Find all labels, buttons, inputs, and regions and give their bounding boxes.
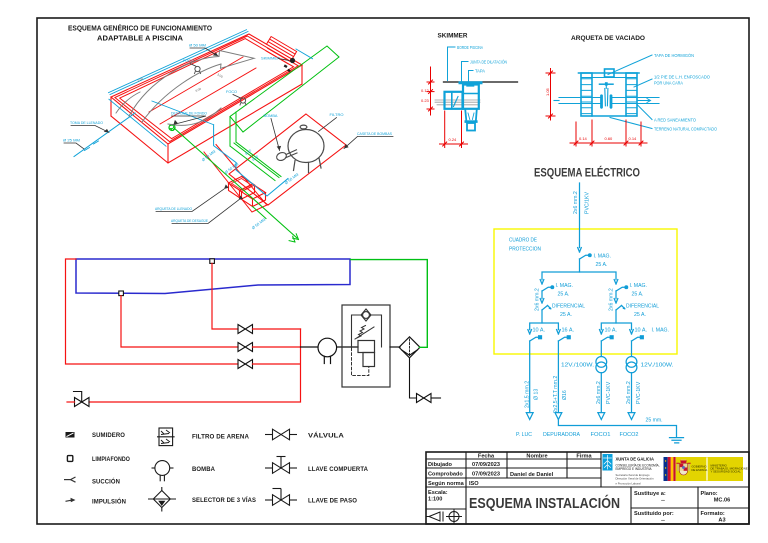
pool floor lines <box>149 57 256 124</box>
breaker Q0 I.MAG 25A <box>578 248 591 272</box>
svg-text:10 A.: 10 A. <box>605 328 618 334</box>
svg-text:JUNTA DE DILATACIÓN: JUNTA DE DILATACIÓN <box>470 60 507 65</box>
svg-text:07/09/2023: 07/09/2023 <box>472 462 500 468</box>
pool wall verticals <box>111 65 302 163</box>
earthing conductor run <box>558 420 676 437</box>
flow small arc left <box>116 92 140 113</box>
transformer T2 12V 100W <box>626 357 637 413</box>
svg-text:LLAVE DE PASO: LLAVE DE PASO <box>308 498 357 505</box>
red stub left of drain valve <box>67 401 75 403</box>
breaker Q6 10A I.MAG <box>630 330 644 357</box>
sumidero symbol <box>66 432 75 438</box>
foco lamp 2 <box>240 98 246 105</box>
svg-text:ARQUETA DE DESAGÜE: ARQUETA DE DESAGÜE <box>171 219 208 223</box>
svg-text:ARQUETA DE LLENADO: ARQUETA DE LLENADO <box>155 207 192 211</box>
cyan rim trim <box>109 30 249 95</box>
terminal arrow P.LUC <box>526 413 533 420</box>
svg-text:--: -- <box>661 518 665 524</box>
svg-text:I. MAG.: I. MAG. <box>630 283 648 289</box>
skimmer tap square on pool top <box>210 259 215 264</box>
cyan SW trim <box>109 49 313 146</box>
pool basin cross-section <box>76 259 350 294</box>
svg-text:EMPREGO E INDUSTRIA: EMPREGO E INDUSTRIA <box>616 467 653 471</box>
terminal arrow DEPURADORA <box>555 413 562 420</box>
svg-text:25 A.: 25 A. <box>632 292 644 298</box>
svg-text:1:100: 1:100 <box>428 497 442 503</box>
svg-text:12V./100W.: 12V./100W. <box>561 363 594 369</box>
svg-text:2x1,5 mm.2: 2x1,5 mm.2 <box>524 381 530 408</box>
succion symbol <box>64 477 76 482</box>
svg-text:FILTRO DE ARENA: FILTRO DE ARENA <box>192 434 249 441</box>
svg-text:IMPULSIÓN: IMPULSIÓN <box>92 497 126 506</box>
svg-text:ESQUEMA ELÉCTRICO: ESQUEMA ELÉCTRICO <box>534 165 640 180</box>
svg-text:FOCO1: FOCO1 <box>591 432 611 438</box>
svg-text:Ø 50 MM: Ø 50 MM <box>189 44 206 48</box>
black leader lines <box>64 48 393 224</box>
leader caseta <box>344 137 393 149</box>
label BORDE PISCINA <box>448 45 484 81</box>
leader arrowheads <box>104 52 349 200</box>
small dim marks <box>137 72 224 93</box>
bus bar <box>542 272 616 280</box>
filtro de arena symbol <box>157 428 175 446</box>
llave compuerta symbol <box>265 457 297 474</box>
foco lamp 1 <box>195 66 201 73</box>
svg-text:25 A.: 25 A. <box>596 262 608 268</box>
flow arrow tail upper <box>129 57 219 117</box>
svg-text:0.14: 0.14 <box>579 136 588 141</box>
svg-text:BOMBA: BOMBA <box>264 114 278 118</box>
svg-text:FILTRO: FILTRO <box>330 113 344 117</box>
green riser 1 <box>229 117 231 147</box>
green pipe bundle <box>230 142 281 181</box>
svg-text:Formato:: Formato: <box>701 511 725 517</box>
leader arqueta desague <box>172 200 239 224</box>
caseta de bombas slab <box>229 114 346 205</box>
toma de llenado pipe <box>74 113 135 157</box>
flow arrow head <box>219 51 254 69</box>
svg-text:PROTECCION: PROTECCION <box>509 247 541 253</box>
stairs block <box>267 37 297 60</box>
svg-text:I. MAG.: I. MAG. <box>594 254 612 260</box>
skimmer lid bar <box>460 83 481 86</box>
svg-text:--: -- <box>661 498 665 504</box>
leader skimmer <box>279 59 290 61</box>
green boundary parallelogram <box>230 46 339 132</box>
skimmer dims vertical <box>427 67 434 115</box>
breaker Q3 10A <box>528 330 542 413</box>
svg-text:Sustituido por:: Sustituido por: <box>634 511 674 517</box>
svg-text:Comprobado: Comprobado <box>428 472 463 478</box>
svg-text:MC.06: MC.06 <box>714 498 730 504</box>
svg-text:2x6 mm.2: 2x6 mm.2 <box>535 288 541 311</box>
svg-text:POR UNA CARA: POR UNA CARA <box>654 81 683 86</box>
diferencial D1 25A <box>540 299 551 323</box>
title block grid <box>426 452 749 524</box>
llenado feed pipe <box>214 125 288 196</box>
waste line from selector <box>410 358 417 398</box>
svg-text:07/09/2023: 07/09/2023 <box>472 472 500 478</box>
svg-text:Dibujado: Dibujado <box>428 462 453 468</box>
svg-text:Sustituye a:: Sustituye a: <box>634 491 666 497</box>
svg-text:10 A.: 10 A. <box>533 328 546 334</box>
svg-text:DEPURADORA: DEPURADORA <box>543 432 580 438</box>
pump unit <box>276 150 297 162</box>
sump tap square on pool floor <box>119 291 124 296</box>
label JUNTA DE DILATACION <box>462 60 508 84</box>
projection symbol cone <box>427 512 444 521</box>
svg-text:XUNTA DE GALICIA: XUNTA DE GALICIA <box>616 457 655 463</box>
pilot dashed lines <box>352 348 369 376</box>
leader arqueta llenado <box>156 189 224 212</box>
stair step inner 1 <box>268 48 290 61</box>
svg-text:SKIMMER: SKIMMER <box>261 57 280 61</box>
valve V1 <box>238 325 253 334</box>
skimmer unit dark <box>284 58 295 72</box>
svg-text:VÁLVULA: VÁLVULA <box>308 430 344 439</box>
bomba symbol <box>152 461 174 482</box>
filter vent circle <box>361 309 371 321</box>
manifold red lines <box>89 329 301 402</box>
svg-text:FOCO2: FOCO2 <box>620 432 639 438</box>
selector de 3 vias S1 <box>399 337 420 358</box>
svg-text:25 A.: 25 A. <box>560 312 572 318</box>
relief spring <box>355 326 374 340</box>
label A RED SANEAMIENTO <box>637 105 697 123</box>
svg-text:25 A.: 25 A. <box>634 312 646 318</box>
feeder wire <box>579 183 581 248</box>
llave de paso symbol <box>265 489 297 506</box>
arqueta dim vertical <box>546 69 555 121</box>
svg-text:25 A.: 25 A. <box>558 292 570 298</box>
filter valve body <box>358 341 375 353</box>
svg-text:ESQUEMA INSTALACIÓN: ESQUEMA INSTALACIÓN <box>469 494 620 512</box>
skimmer mouth box <box>445 92 463 109</box>
xunta logo blue square <box>603 454 613 471</box>
breaker Q5 10A <box>600 330 614 357</box>
pipe pump to filter unit <box>337 346 358 348</box>
water lines <box>435 100 480 105</box>
green return pipe <box>351 260 428 348</box>
leader foco1 <box>190 64 197 67</box>
red suction pipe 1 (skimmer) <box>212 263 238 329</box>
svg-text:Firma: Firma <box>576 454 592 460</box>
label 1/2 pie <box>634 75 711 88</box>
arqueta link pipe <box>253 207 267 219</box>
drain pipe through arqueta <box>554 98 659 104</box>
right sub-bus <box>601 323 631 330</box>
svg-text:Y SEGURIDAD SOCIAL: Y SEGURIDAD SOCIAL <box>711 469 742 473</box>
transformer T1 12V 100W <box>596 357 607 413</box>
svg-text:2x6 mm.2: 2x6 mm.2 <box>573 191 579 214</box>
svg-text:SUMIDERO: SUMIDERO <box>92 432 125 439</box>
leader bomba <box>271 119 280 151</box>
left brick wall <box>581 73 592 116</box>
valvula symbol <box>265 429 297 440</box>
svg-text:0.24: 0.24 <box>449 137 458 142</box>
funnel <box>465 109 477 120</box>
svg-text:Dirección Xeral de Orientación: Dirección Xeral de Orientación <box>616 476 654 480</box>
projection symbol circle <box>447 509 462 524</box>
svg-text:ISO: ISO <box>469 481 479 487</box>
leader d25 <box>64 143 84 149</box>
flow hook arc <box>168 108 221 125</box>
label TAPA <box>469 69 486 82</box>
svg-text:ESQUEMA GENÉRICO DE FUNCIONAMI: ESQUEMA GENÉRICO DE FUNCIONAMIENTO <box>68 24 213 33</box>
table small texts <box>428 454 730 524</box>
breaker Q1 I.MAG 25A <box>540 280 553 299</box>
svg-text:12V./100W.: 12V./100W. <box>641 363 674 369</box>
breaker Q2 I.MAG 25A <box>614 280 627 299</box>
impulsion symbol <box>66 498 76 503</box>
breaker Q4 16A <box>557 330 571 413</box>
svg-text:ADAPTABLE A PISCINA: ADAPTABLE A PISCINA <box>97 36 183 43</box>
label TERRENO NATURAL <box>610 118 718 132</box>
svg-text:P. LUC: P. LUC <box>516 432 532 438</box>
leader d50 top <box>190 48 218 56</box>
drain arrowhead <box>289 234 298 242</box>
skimmer body chamber <box>463 85 479 131</box>
svg-text:A RED SANEAMIENTO: A RED SANEAMIENTO <box>654 118 697 123</box>
stair step 2 <box>270 39 296 54</box>
svg-text:DESAGÜE DE FONDO: DESAGÜE DE FONDO <box>171 112 207 116</box>
deck line <box>444 81 518 83</box>
cuadro de proteccion yellow box <box>494 229 677 354</box>
svg-text:Según norma: Según norma <box>428 481 465 487</box>
gate valve <box>600 82 614 107</box>
svg-text:Fecha: Fecha <box>478 454 495 460</box>
pool basin edge <box>120 39 294 139</box>
svg-text:SELECTOR DE 3 VÍAS: SELECTOR DE 3 VÍAS <box>192 495 257 504</box>
svg-text:PVC-1KV: PVC-1KV <box>636 381 642 404</box>
terminal arrow FOCO2 <box>628 413 635 420</box>
green riser 2 <box>235 112 237 142</box>
svg-text:ARQUETA DE VACIADO: ARQUETA DE VACIADO <box>571 35 645 42</box>
leader foco2 <box>233 95 241 99</box>
toma pipe ticks <box>85 141 99 151</box>
arqueta de desague box <box>240 184 266 207</box>
flow arrow tail lower <box>142 64 221 122</box>
svg-text:I. MAG.: I. MAG. <box>556 283 574 289</box>
svg-text:TOMA DE LLENADO: TOMA DE LLENADO <box>70 121 103 125</box>
svg-text:SUCCIÓN: SUCCIÓN <box>92 476 120 485</box>
right brick wall <box>626 73 637 116</box>
svg-text:25 mm.: 25 mm. <box>646 418 663 424</box>
left sub-bus <box>530 323 559 330</box>
xunta logo text <box>616 457 660 486</box>
filter vessel <box>288 125 324 172</box>
svg-text:TERRENO NATURAL COMPACTADO: TERRENO NATURAL COMPACTADO <box>654 127 718 132</box>
svg-text:TAPA DE HORMIGÓN: TAPA DE HORMIGÓN <box>654 53 694 58</box>
svg-text:A3: A3 <box>718 518 725 524</box>
leader toma <box>71 126 109 133</box>
svg-text:CASETA DE BOMBAS: CASETA DE BOMBAS <box>357 132 392 136</box>
svg-text:0.23: 0.23 <box>421 98 430 103</box>
filter unit enclosure <box>342 305 390 387</box>
svg-text:FOCO: FOCO <box>226 90 237 94</box>
TITLES <box>68 24 645 180</box>
svg-text:DE ESPAÑA: DE ESPAÑA <box>692 467 708 472</box>
filter lower body <box>363 353 375 367</box>
leader filtro <box>319 118 337 132</box>
red suction pipe 2 (sump) <box>121 296 238 347</box>
svg-text:Daniel de Daniel: Daniel de Daniel <box>510 472 554 478</box>
pipe under pool <box>152 101 214 125</box>
svg-text:BOMBA: BOMBA <box>192 466 215 473</box>
svg-text:10 A.: 10 A. <box>635 328 648 334</box>
svg-text:CUADRO DE: CUADRO DE <box>509 238 537 244</box>
svg-text:2x6 mm.2: 2x6 mm.2 <box>626 381 632 404</box>
red suction pipe 3 (overflow) <box>66 259 239 364</box>
limpiafondo symbol <box>67 456 72 462</box>
suction line to pump <box>301 346 319 348</box>
ground electrode <box>670 438 684 443</box>
svg-text:1.05: 1.05 <box>545 87 550 96</box>
svg-text:2x6 mm.2: 2x6 mm.2 <box>596 381 602 404</box>
selector 3 vias symbol <box>148 487 176 512</box>
leader desague fondo <box>172 116 207 125</box>
svg-text:Ø 13: Ø 13 <box>533 389 539 400</box>
chamber floor <box>592 115 626 117</box>
waste valve <box>417 394 432 403</box>
wire to manifold 1 <box>253 328 301 330</box>
svg-text:2x6 mm.2: 2x6 mm.2 <box>609 288 615 311</box>
svg-text:0.12: 0.12 <box>421 88 430 93</box>
drain S trap <box>169 125 175 131</box>
svg-text:TAPA: TAPA <box>475 69 485 74</box>
svg-text:2x2,5+T.T mm.2: 2x2,5+T.T mm.2 <box>553 376 559 413</box>
svg-text:1/2 PIE DE L.H. ENFOSCADO: 1/2 PIE DE L.H. ENFOSCADO <box>654 75 711 80</box>
waste stub <box>431 397 441 399</box>
drain valve (llave de paso) <box>74 392 90 407</box>
pool wall bases <box>111 84 302 163</box>
svg-text:DIFERENCIAL: DIFERENCIAL <box>552 304 585 310</box>
pool outer rim <box>111 34 302 144</box>
svg-text:LLAVE COMPUERTA: LLAVE COMPUERTA <box>308 466 368 473</box>
svg-text:PVC/1KV: PVC/1KV <box>585 192 591 214</box>
terminal arrow FOCO1 <box>598 413 605 420</box>
skimmer dim bottom <box>440 111 468 148</box>
svg-text:e Promoción Laboral: e Promoción Laboral <box>616 481 641 485</box>
electrical labels <box>509 191 674 438</box>
valve V3 <box>238 360 253 369</box>
label TAPA DE HORMIGON <box>608 53 694 75</box>
svg-text:Ø 25 MM: Ø 25 MM <box>63 139 80 143</box>
svg-text:I. MAG.: I. MAG. <box>652 328 670 334</box>
main drain line <box>174 128 297 238</box>
stair step inner 2 <box>266 51 288 64</box>
spain gov logo <box>664 457 750 481</box>
svg-text:SKIMMER: SKIMMER <box>438 33 468 40</box>
diferencial D2 25A <box>614 299 625 323</box>
svg-text:BORDE PISCINA: BORDE PISCINA <box>457 45 483 50</box>
svg-text:Nombre: Nombre <box>526 454 547 460</box>
svg-text:0.14: 0.14 <box>629 136 638 141</box>
valve V2 <box>238 343 253 352</box>
svg-text:PVC-1KV: PVC-1KV <box>606 381 612 404</box>
labels cyan <box>63 44 392 231</box>
concrete lid <box>579 69 640 78</box>
arqueta dim horizontal <box>570 120 647 146</box>
svg-text:Escala:: Escala: <box>428 490 448 496</box>
trench outline <box>204 145 268 213</box>
flow arrow right <box>638 99 651 103</box>
coat of arms <box>677 459 690 475</box>
outlet pipe <box>467 123 475 131</box>
svg-text:Plano:: Plano: <box>701 491 718 497</box>
pool rim inner line <box>115 36 298 142</box>
arqueta de llenado box <box>229 177 255 200</box>
stair step 1 <box>268 42 294 57</box>
svg-text:16 A.: 16 A. <box>562 328 575 334</box>
svg-text:DIFERENCIAL: DIFERENCIAL <box>626 304 659 310</box>
pump B1 <box>318 338 337 363</box>
svg-text:0.60: 0.60 <box>605 136 614 141</box>
svg-text:Ø16: Ø16 <box>562 390 568 400</box>
svg-text:LIMPIAFONDO: LIMPIAFONDO <box>92 456 130 463</box>
pipe to selector <box>390 346 400 348</box>
filter inner manifold box <box>352 315 382 347</box>
